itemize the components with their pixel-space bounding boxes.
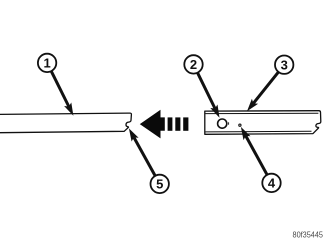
bracket small locating hole (item 4) [239, 124, 241, 126]
bracket retainer hole (item 2) [218, 119, 227, 128]
bracket top inner edge line [205, 112, 318, 114]
callout balloon 5 [151, 175, 169, 193]
svg-text:80f35445: 80f35445 [293, 230, 324, 240]
direction arrow dash 3 [183, 117, 188, 130]
leader arrow to callout 3 [253, 72, 278, 103]
leader arrow to callout 4 [246, 136, 267, 175]
svg-text:5: 5 [156, 177, 163, 192]
callout balloon 2 [184, 55, 202, 73]
callout balloon 3 [275, 55, 293, 73]
bracket bottom inner edge line [205, 130, 311, 133]
svg-text:3: 3 [281, 57, 288, 72]
direction arrow dash 2 [175, 117, 180, 130]
leader arrow to callout 1 [51, 71, 69, 106]
direction arrow dash 1 [168, 117, 173, 130]
leader arrow to callout 5 [134, 137, 155, 176]
callout balloon 1 [38, 54, 56, 72]
svg-text:2: 2 [190, 57, 197, 72]
right retainer bracket (part 3) outline [205, 111, 321, 135]
direction arrow (solid head, dashed shaft) [140, 110, 165, 139]
small tick mark on bracket [228, 122, 230, 124]
svg-text:4: 4 [268, 176, 276, 191]
left rail / slat (part 1) outline [0, 113, 131, 133]
callout balloon 4 [262, 174, 280, 192]
leader arrow to callout 2 [198, 73, 216, 109]
svg-text:1: 1 [43, 56, 50, 71]
